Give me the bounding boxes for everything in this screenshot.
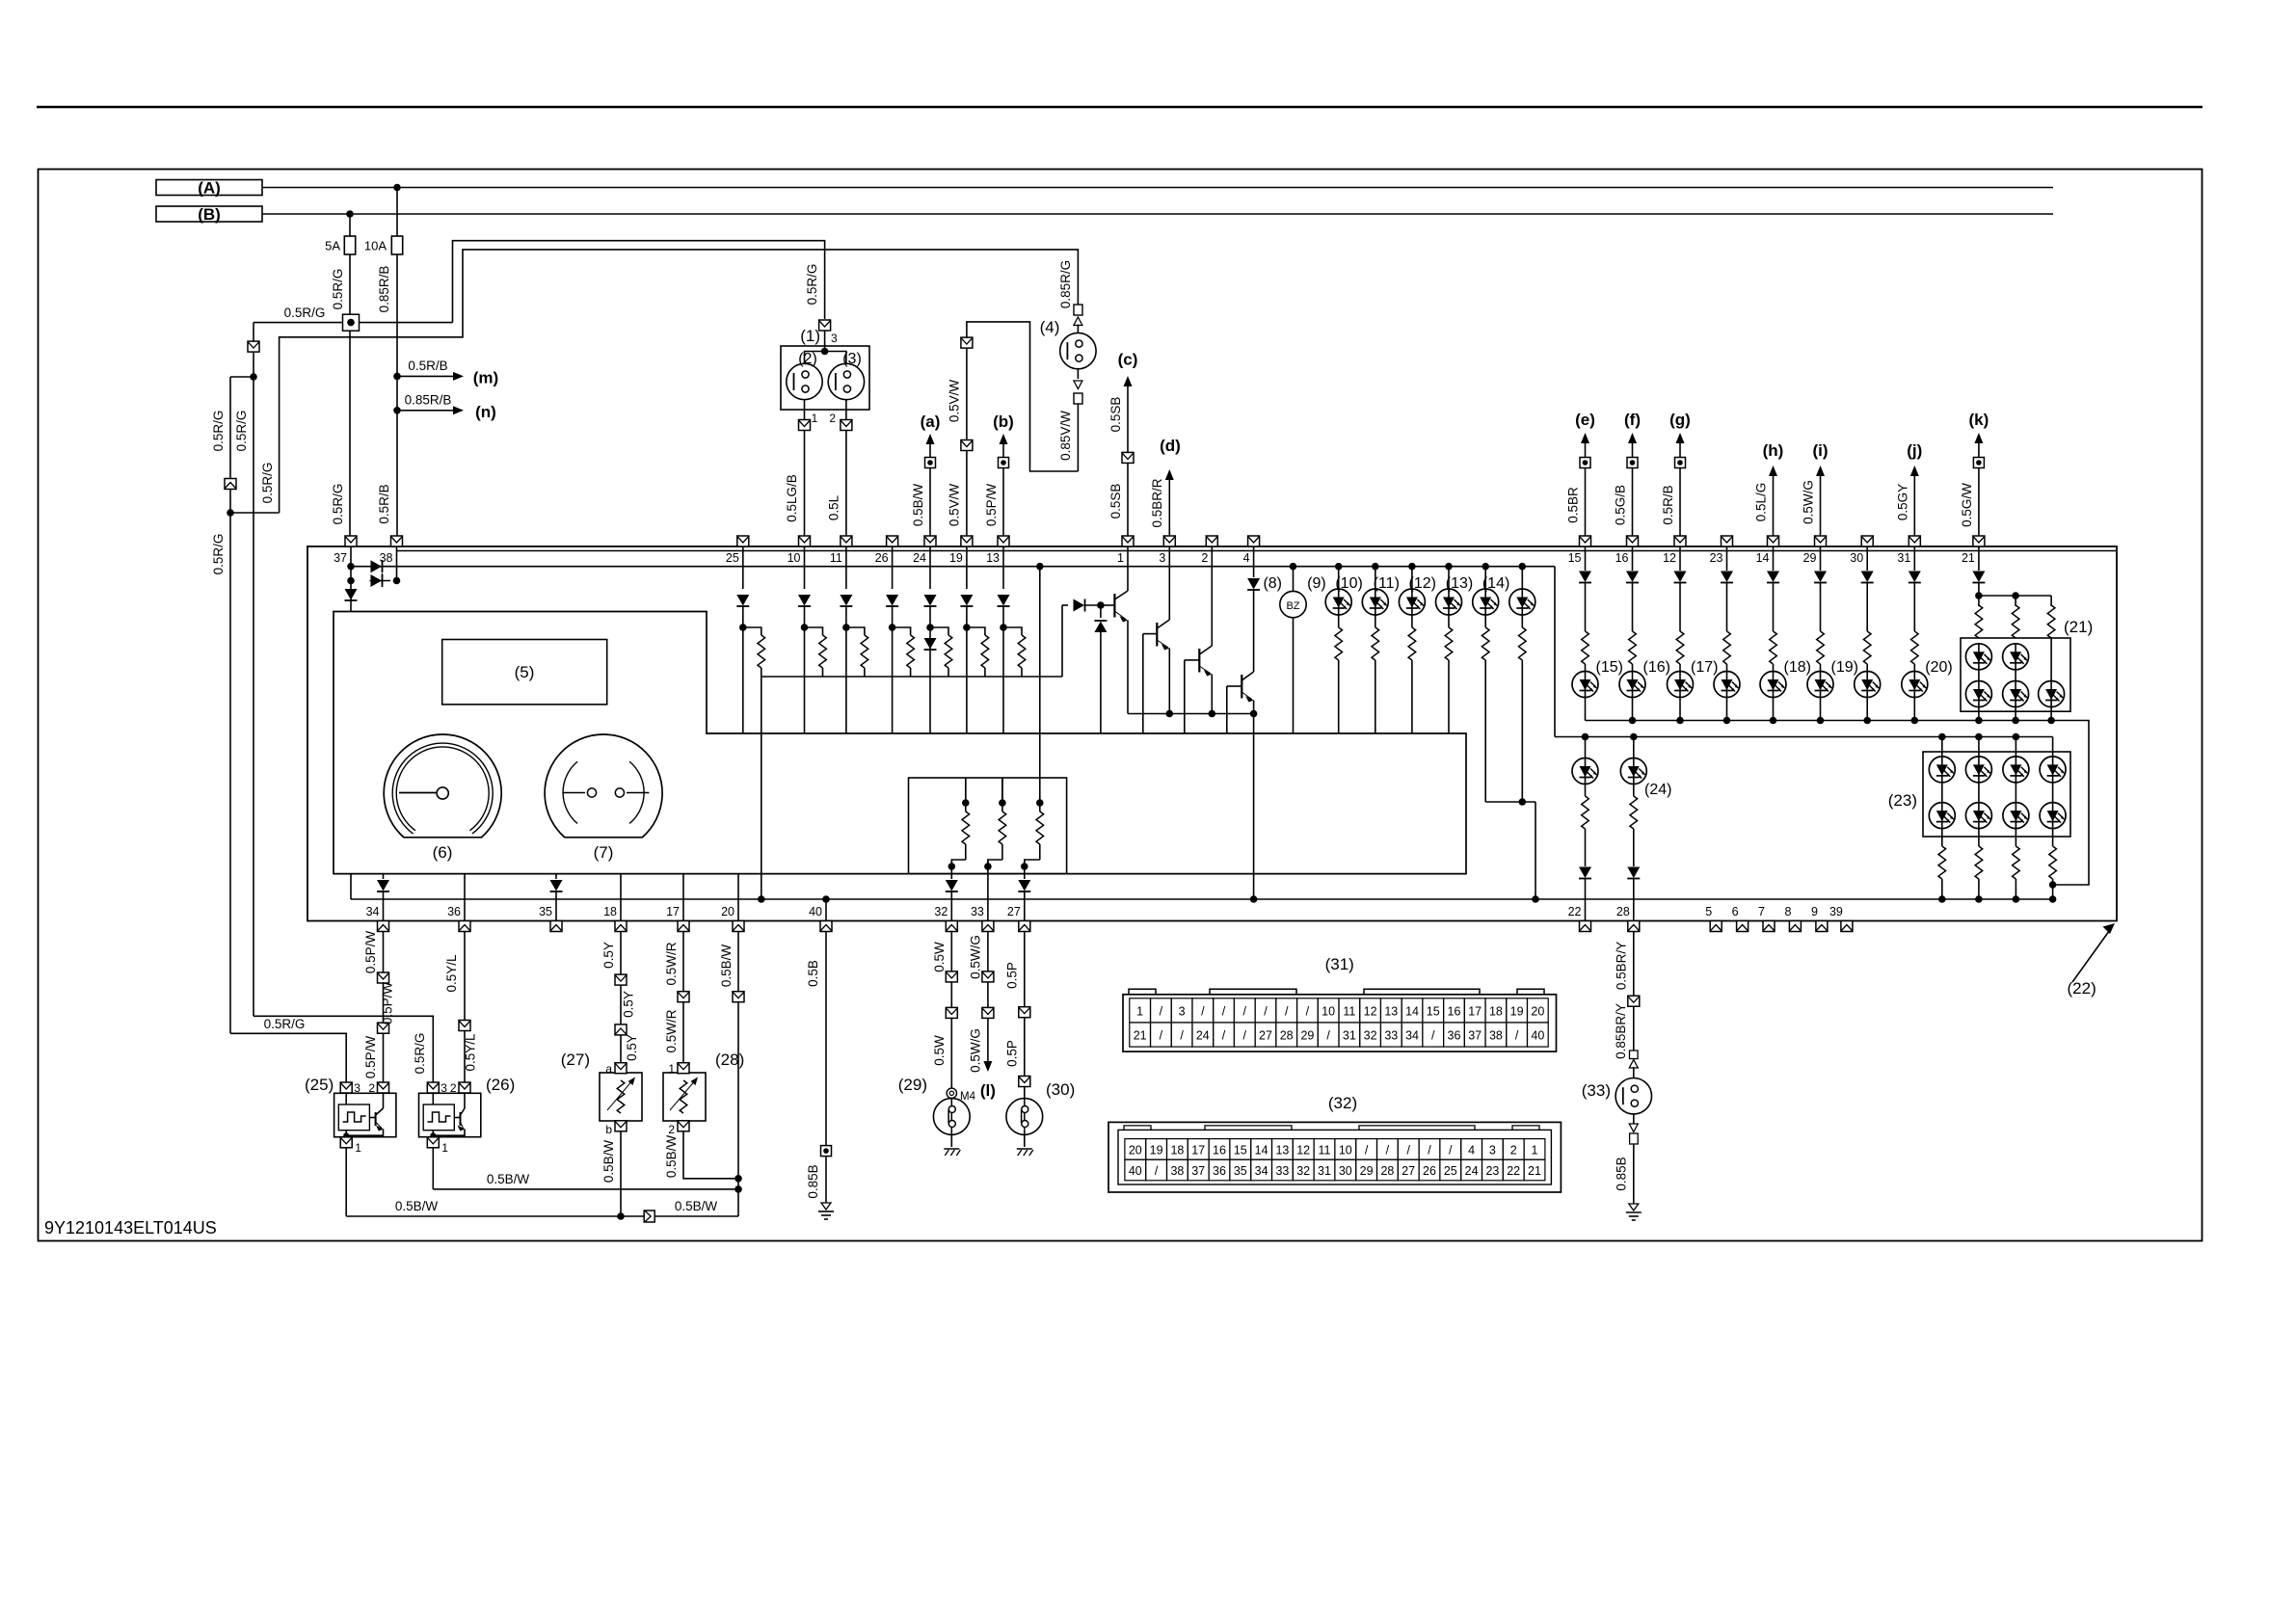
gauge module outline <box>334 612 1466 874</box>
wire (30) to ground <box>1024 1134 1026 1147</box>
LED (23) top col 2129 <box>2040 757 2066 783</box>
wire col x1041 to module <box>1002 627 1004 733</box>
square connector 0.85B <box>821 1146 832 1157</box>
ground (30) <box>1017 1149 1033 1156</box>
connector pin 23 top <box>1722 536 1733 546</box>
emitter bus <box>1128 713 1254 715</box>
svg-text:25: 25 <box>1444 1164 1457 1178</box>
riser from rail to block resistor <box>1039 567 1041 803</box>
svg-text:(27): (27) <box>561 1051 590 1069</box>
svg-text:37: 37 <box>1191 1164 1205 1178</box>
resistor jog x965 <box>930 627 948 635</box>
svg-text:0.5Y/L: 0.5Y/L <box>444 954 459 993</box>
component (26) box <box>419 1093 481 1136</box>
svg-text:2: 2 <box>668 1123 675 1136</box>
svg-text:(b): (b) <box>993 412 1014 431</box>
squarewave symbol (25) <box>338 1104 369 1131</box>
connector pin 8 bottom <box>1789 921 1801 932</box>
LED (23) top col 2014 <box>1929 757 1955 783</box>
diode pin34 <box>377 880 389 891</box>
transistor in (25) <box>375 1112 377 1126</box>
svg-text:(28): (28) <box>715 1051 744 1069</box>
diode into T1 base <box>1062 604 1068 606</box>
svg-text:7: 7 <box>1758 905 1765 918</box>
svg-text:10: 10 <box>1322 1004 1335 1018</box>
connector pin 1 top <box>1122 536 1134 546</box>
svg-text:35: 35 <box>1234 1164 1247 1178</box>
resistor in block 2 <box>1001 778 1003 803</box>
svg-text:/: / <box>1160 1004 1163 1018</box>
wire branch to x239 <box>230 376 254 378</box>
wire (a) down to pin <box>929 468 931 537</box>
wire (f) down <box>1632 468 1634 537</box>
wire pin col x770 down <box>742 546 744 589</box>
connector pin 28 bottom <box>1628 921 1640 932</box>
wire left column to branch node <box>253 352 254 377</box>
svg-text:0.85BR/Y: 0.85BR/Y <box>1614 1003 1628 1059</box>
component (28) box <box>663 1073 706 1121</box>
svg-text:5A: 5A <box>325 239 340 253</box>
wire (1) to lamp tops <box>805 352 846 372</box>
lamp (3) <box>828 363 864 399</box>
cathode bus A <box>1586 721 2090 886</box>
triangle conn below (4) <box>1074 381 1082 389</box>
svg-text:/: / <box>1431 1028 1435 1042</box>
resistor jog x1002 <box>967 627 985 635</box>
wire T2 emitter drop <box>1168 649 1170 714</box>
connector pin 20 bottom <box>733 921 744 932</box>
svg-text:/: / <box>1243 1028 1247 1042</box>
wires (21) internal <box>1978 670 1980 681</box>
svg-text:(20): (20) <box>1925 659 1952 676</box>
wire LED (11) down <box>1411 615 1413 627</box>
connector pin 22 bottom <box>1580 921 1591 932</box>
wire pin col x925 down <box>892 546 894 589</box>
wire LED (13) down <box>1484 615 1486 627</box>
svg-text:a: a <box>605 1062 612 1076</box>
connector pin 38 top <box>391 536 403 546</box>
diode pin4 column <box>1247 578 1260 590</box>
wire BZ down <box>1293 618 1295 733</box>
LED (23) bottom col 2052 <box>1965 803 1991 829</box>
wire from (B) <box>262 213 2053 215</box>
wire LED (10) down <box>1375 615 1376 627</box>
wire pin col 1693 down <box>1632 546 1634 571</box>
LED (23) bottom col 2091 <box>2003 803 2029 829</box>
wire 0.5L to pin11 <box>845 431 847 537</box>
diode col x1002 <box>960 595 973 606</box>
svg-text:15: 15 <box>1427 1004 1440 1018</box>
LED (23) bottom col 2014 <box>1929 803 1955 829</box>
svg-text:(5): (5) <box>515 663 535 681</box>
wire fuse 5A down <box>349 254 351 536</box>
connector rect below (4) <box>1074 393 1082 404</box>
svg-text:14: 14 <box>1405 1004 1419 1018</box>
connector pin 35 bottom <box>550 921 562 932</box>
svg-text:32: 32 <box>934 905 948 918</box>
connector pin2 of (1) <box>841 420 852 431</box>
wire pin40 stub <box>825 899 827 921</box>
variable resistor (28) <box>680 1080 687 1113</box>
wire pin col 1644 down <box>1585 546 1587 571</box>
svg-text:0.5P/W: 0.5P/W <box>363 931 378 974</box>
resistor (23) col 2129 <box>2049 846 2057 879</box>
connector pin3 (25) <box>340 1082 352 1093</box>
svg-text:33: 33 <box>1275 1164 1289 1178</box>
connector pin 2 (28) <box>678 1121 689 1131</box>
wire (3) pin2 down <box>845 400 847 420</box>
LED (21) r1c2 <box>2003 644 2029 670</box>
wire col x834 to module <box>804 627 806 733</box>
svg-text:(10): (10) <box>1335 575 1362 592</box>
connector pin b (27) <box>615 1121 627 1131</box>
svg-text:20: 20 <box>1129 1143 1142 1157</box>
wire col263 down to (26) feed <box>253 377 254 1016</box>
svg-text:34: 34 <box>1255 1164 1268 1178</box>
diode pin27 <box>1018 880 1030 891</box>
wire B to fuse 5A <box>349 214 351 236</box>
svg-text:1: 1 <box>1532 1143 1538 1157</box>
svg-text:0.5Y: 0.5Y <box>625 1034 639 1061</box>
svg-text:0.5P: 0.5P <box>1005 962 1020 989</box>
wire LED (9) down <box>1338 615 1340 627</box>
riser 0.5R/G to (4) feed <box>280 250 1079 513</box>
connector pin 18 bottom <box>615 921 627 932</box>
arrow up (c) <box>1124 376 1133 386</box>
svg-text:0.5SB: 0.5SB <box>1108 397 1123 433</box>
arrow up (j) <box>1910 466 1919 476</box>
svg-text:11: 11 <box>1343 1004 1355 1018</box>
svg-text:(l): (l) <box>980 1081 996 1100</box>
svg-text:0.5W/R: 0.5W/R <box>664 942 679 985</box>
resistor jog x925 <box>893 627 911 635</box>
svg-text:16: 16 <box>1615 551 1629 565</box>
svg-text:(g): (g) <box>1669 411 1691 429</box>
wire (23) col 2052 to rail <box>1978 879 1980 899</box>
junction pin37 rail <box>347 563 355 571</box>
LED block (21) box <box>1961 638 2070 711</box>
node bottom (25) <box>343 1132 349 1138</box>
emitter return (26) <box>433 1130 465 1136</box>
svg-text:27: 27 <box>1007 905 1021 918</box>
wire pin1 collector <box>1127 546 1129 591</box>
fuse 5A <box>344 236 355 254</box>
wire pin2 collector <box>1211 546 1213 646</box>
LED (18) <box>1760 672 1786 698</box>
svg-text:10A: 10A <box>364 239 387 253</box>
wire LED 1693 to bus <box>1632 698 1634 721</box>
wire pin40 down <box>825 932 827 1146</box>
rail from pin 37 diodes <box>351 566 1555 568</box>
arrow up (b) <box>1000 434 1008 444</box>
svg-text:3: 3 <box>1159 551 1165 565</box>
svg-text:0.5W/G: 0.5W/G <box>1802 480 1816 524</box>
wire col 1644 to pin <box>1585 879 1587 921</box>
node bottom (26) <box>430 1132 436 1138</box>
svg-text:0.5R/G: 0.5R/G <box>260 463 275 504</box>
riser pin32 top <box>965 778 967 803</box>
transistor T1 <box>1101 604 1115 606</box>
svg-text:16: 16 <box>1448 1004 1461 1018</box>
svg-text:23: 23 <box>1485 1164 1499 1178</box>
svg-text:18: 18 <box>1489 1004 1503 1018</box>
diode col 1839 <box>1767 572 1779 583</box>
wire pin col 1791 down <box>1726 546 1728 571</box>
svg-text:0.5L: 0.5L <box>827 494 841 520</box>
LED (9) <box>1335 563 1343 571</box>
connector pin 30 top <box>1861 536 1873 546</box>
svg-text:1: 1 <box>441 1141 448 1155</box>
wires (23) col 2091 <box>2015 783 2016 803</box>
wire pin col x1041 down <box>1002 546 1004 589</box>
svg-text:40: 40 <box>809 905 822 918</box>
svg-text:29: 29 <box>1300 1028 1314 1042</box>
wire col239 down to (25) feed <box>229 513 231 1033</box>
wire pin36 chain <box>464 932 466 1021</box>
svg-text:(k): (k) <box>1969 411 1989 429</box>
wire pin18 chain <box>620 932 622 975</box>
svg-text:33: 33 <box>1384 1028 1398 1042</box>
svg-text:(6): (6) <box>433 843 453 862</box>
connector pin 21 top <box>1973 536 1985 546</box>
wire LED 1986 to bus <box>1913 698 1915 721</box>
svg-text:3: 3 <box>1179 1004 1186 1018</box>
diode col x925 <box>886 595 898 606</box>
svg-text:0.5V/W: 0.5V/W <box>948 380 962 423</box>
square connector (k) <box>1973 458 1984 468</box>
fuse 10A <box>391 236 402 254</box>
connector pin 17 bottom <box>678 921 689 932</box>
svg-text:(30): (30) <box>1046 1080 1075 1099</box>
wire col239 to node532 <box>229 490 231 514</box>
connector pin 31 top <box>1909 536 1920 546</box>
connector pin 26 top <box>887 536 898 546</box>
svg-text:28: 28 <box>1380 1164 1394 1178</box>
svg-text:6: 6 <box>1732 905 1739 918</box>
connector inline V/W lower <box>961 440 973 451</box>
wire 0.5B/W from (25) <box>346 1215 643 1217</box>
svg-text:(i): (i) <box>1812 441 1828 460</box>
connector pin 5 bottom <box>1710 921 1722 932</box>
svg-text:32: 32 <box>1364 1028 1377 1042</box>
wire col x770 to module <box>742 627 744 733</box>
wire (4) bottom <box>1077 369 1079 379</box>
arrow up (i) <box>1816 466 1825 476</box>
wire T3 emitter drop <box>1211 675 1213 714</box>
connector inline col239 <box>225 479 236 490</box>
svg-text:/: / <box>1264 1004 1268 1018</box>
svg-text:0.85V/W: 0.85V/W <box>1058 411 1073 461</box>
svg-text:(22): (22) <box>2068 979 2096 998</box>
junction col239 node532 <box>227 509 234 517</box>
connector pin 14 top <box>1768 536 1779 546</box>
rail from pin 38 <box>397 550 2117 552</box>
resistor in block 3 <box>1036 799 1044 807</box>
junction (21) feed <box>1975 592 1983 599</box>
svg-text:3: 3 <box>831 332 838 345</box>
arrow up (h) <box>1769 466 1777 476</box>
svg-text:(29): (29) <box>898 1076 927 1094</box>
svg-text:30: 30 <box>1850 551 1863 565</box>
wire diode pair to pin38 col <box>370 580 391 582</box>
svg-text:28: 28 <box>1616 905 1630 918</box>
svg-text:21: 21 <box>1528 1164 1541 1178</box>
connector pin 29 top <box>1815 536 1827 546</box>
svg-text:0.5W: 0.5W <box>932 942 947 972</box>
svg-text:14: 14 <box>1756 551 1770 565</box>
svg-text:(12): (12) <box>1409 575 1436 592</box>
wire (c) to pin1 <box>1127 463 1129 536</box>
svg-text:24: 24 <box>1196 1028 1210 1042</box>
resistor (21) col 2128 <box>2050 596 2052 606</box>
wire pin34 chain <box>383 932 385 973</box>
wire below diode x834 <box>804 606 806 627</box>
wire pin col 1743 down <box>1679 546 1681 571</box>
wire squarewave bottom (25) <box>345 1093 347 1104</box>
svg-text:9Y1210143ELT014US: 9Y1210143ELT014US <box>44 1218 217 1237</box>
svg-text:9: 9 <box>1811 905 1818 918</box>
LED (14) <box>1519 563 1527 571</box>
wire 0.5R/B to (m) <box>397 375 453 377</box>
wire col x925 to module <box>892 627 894 733</box>
svg-text:0.5B/W: 0.5B/W <box>395 1199 439 1213</box>
connector pin 36 bottom <box>459 921 470 932</box>
resistor jog x877 <box>846 627 865 635</box>
arrow up (e) <box>1581 433 1589 443</box>
svg-text:(16): (16) <box>1643 659 1670 676</box>
diode col x965 <box>924 595 937 606</box>
svg-text:0.5R/B: 0.5R/B <box>377 484 391 523</box>
wire (26) pin1 down <box>432 1148 434 1189</box>
wire pin col x877 down <box>845 546 847 589</box>
svg-text:(21): (21) <box>2064 618 2093 636</box>
connector pin 16 top <box>1627 536 1639 546</box>
wire A to fuse 10A <box>396 188 398 237</box>
svg-text:22: 22 <box>1568 905 1582 918</box>
wire node532 right to riser <box>230 512 280 514</box>
square connector (g) <box>1675 458 1686 468</box>
svg-text:/: / <box>1222 1028 1226 1042</box>
wire V/W loop to (4) <box>967 322 1079 471</box>
resistor col 1937 <box>1863 631 1871 664</box>
wire (23) col 2052 from bus <box>1978 737 1980 758</box>
svg-text:(c): (c) <box>1118 351 1138 369</box>
svg-text:36: 36 <box>1448 1028 1461 1042</box>
connector pin1 of (1) <box>799 420 811 431</box>
wire T1 emitter drop <box>1127 621 1129 714</box>
lamp (4) <box>1060 333 1096 368</box>
LED (21) r2c2 <box>2003 681 2029 707</box>
resistor bus <box>761 676 1062 678</box>
svg-text:12: 12 <box>1663 551 1676 565</box>
svg-text:(3): (3) <box>842 351 862 367</box>
connector pin1 (25) <box>340 1137 352 1148</box>
wires (23) col 2129 <box>2052 783 2054 803</box>
transistor T2 <box>1143 633 1158 635</box>
svg-text:15: 15 <box>1234 1143 1247 1157</box>
diode2 on pin24 column <box>924 638 937 650</box>
wire col 1694 to pin <box>1633 879 1635 921</box>
wire pin col x1002 down <box>966 546 968 589</box>
resistor jog x770 <box>743 627 761 635</box>
svg-text:17: 17 <box>1468 1004 1482 1018</box>
outer border frame <box>39 170 2203 1241</box>
arrow up (k) <box>1974 433 1983 443</box>
junction on wire B <box>346 210 354 218</box>
wire col x965 to module <box>929 627 931 733</box>
svg-text:37: 37 <box>334 551 347 565</box>
svg-text:(26): (26) <box>486 1076 515 1094</box>
svg-text:0.85R/B: 0.85R/B <box>405 392 452 407</box>
diode col x834 <box>798 595 811 606</box>
node (A) box <box>156 180 262 196</box>
square connector (a) <box>925 458 936 468</box>
instrument panel box (22) <box>307 546 2117 921</box>
svg-text:0.5Y: 0.5Y <box>622 991 636 1018</box>
svg-text:3: 3 <box>441 1081 447 1095</box>
svg-text:(19): (19) <box>1831 659 1858 676</box>
wire 0.5LG/B to pin10 <box>804 431 806 537</box>
wire below diode x1002 <box>966 606 968 627</box>
junction pin38 col <box>393 577 401 585</box>
svg-text:(25): (25) <box>305 1076 334 1094</box>
wire (23) col 2091 to rail <box>2015 879 2016 899</box>
svg-text:(A): (A) <box>198 179 221 198</box>
svg-text:/: / <box>1386 1143 1390 1157</box>
wire pin33 down <box>987 932 989 972</box>
wire V/W mid <box>966 348 968 440</box>
svg-text:29: 29 <box>1360 1164 1374 1178</box>
LED (21) r1c1 <box>1965 644 1991 670</box>
ground col40 <box>818 1203 834 1219</box>
connector pin 19 top <box>961 536 973 546</box>
svg-text:/: / <box>1406 1143 1410 1157</box>
svg-text:(17): (17) <box>1691 659 1718 676</box>
svg-text:0.5W/R: 0.5W/R <box>664 1009 679 1052</box>
svg-text:0.5B/W: 0.5B/W <box>719 945 734 988</box>
wire LED (14) down <box>1521 615 1523 627</box>
svg-text:26: 26 <box>875 551 889 565</box>
diode col 1743 <box>1674 572 1687 583</box>
connector table (31) <box>1123 995 1557 1051</box>
svg-text:2: 2 <box>1510 1143 1517 1157</box>
diode col 1644 <box>1579 572 1591 583</box>
connector pin2 (25) <box>378 1082 389 1093</box>
svg-text:b: b <box>605 1123 612 1136</box>
wire fuse 10A down <box>396 254 398 536</box>
svg-text:0.5L/G: 0.5L/G <box>1754 483 1769 522</box>
svg-text:0.5R/B: 0.5R/B <box>408 359 447 373</box>
wire pin34 from gauge box <box>383 874 385 879</box>
svg-text:0.5V/W: 0.5V/W <box>948 484 962 527</box>
buzzer BZ <box>1290 563 1297 571</box>
connector pin 32 bottom <box>946 921 957 932</box>
wire col x877 to module <box>845 627 847 733</box>
arrow to (m) <box>453 372 464 381</box>
wire (e) down <box>1585 468 1587 537</box>
wire from (A) <box>262 187 2053 189</box>
svg-text:21: 21 <box>1134 1028 1147 1042</box>
svg-text:19: 19 <box>1150 1143 1163 1157</box>
diode pin35 <box>550 880 563 891</box>
wire (25) pin1 down <box>345 1148 347 1216</box>
svg-text:/: / <box>1285 1004 1289 1018</box>
connector pin 34 bottom <box>378 921 389 932</box>
wires (23) col 2052 <box>1978 783 1980 803</box>
wire col28 to LED <box>1633 737 1635 758</box>
wire pin37 down <box>350 546 352 612</box>
wire (23) col 2091 from bus <box>2015 737 2016 758</box>
